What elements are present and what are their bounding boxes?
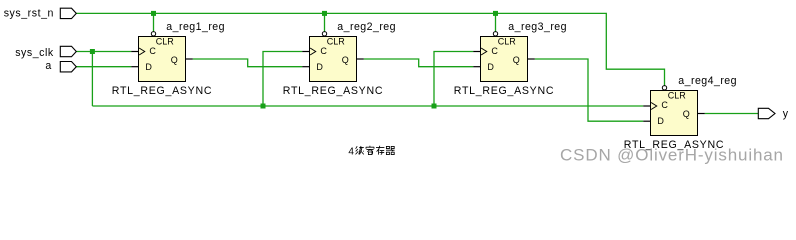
wire: sys_clk vertical drop to clock trunk — [91, 52, 93, 107]
wire: net y from reg4 Q to output port — [705, 113, 759, 115]
flip-flop a_reg2_reg (RTL_REG_ASYNC) — [283, 21, 396, 97]
svg-text:Q: Q — [683, 109, 690, 119]
svg-text:y: y — [783, 108, 789, 120]
a_reg3_reg pin D stub — [473, 66, 480, 68]
wire: net sys_rst_n trunk from port to reg4 CLR — [76, 13, 664, 85]
wire: net a_reg1 from reg1 Q to reg2 D — [193, 59, 302, 67]
wire: sys_rst_n drop to a_reg2_reg CLR — [324, 13, 326, 31]
sys_clk port symbol — [60, 46, 76, 56]
svg-text:Q: Q — [171, 55, 178, 65]
a_reg2_reg pin C stub — [302, 51, 309, 53]
a_reg4_reg body — [651, 91, 698, 136]
svg-text:CLR: CLR — [156, 37, 175, 47]
input port a — [45, 60, 76, 72]
flip-flop a_reg1_reg (RTL_REG_ASYNC) — [112, 21, 225, 97]
y port symbol — [758, 108, 775, 118]
svg-text:CSDN @OliverH-yishuihan: CSDN @OliverH-yishuihan — [560, 146, 784, 165]
svg-text:sys_clk: sys_clk — [15, 47, 54, 59]
svg-text:a_reg4_reg: a_reg4_reg — [678, 75, 737, 87]
a_reg2_reg clock edge triangle — [310, 48, 316, 55]
svg-text:4: 4 — [348, 146, 354, 157]
junction on sys_rst_n trunk at a_reg1_reg — [151, 11, 156, 16]
a_reg3_reg pin C stub — [473, 51, 480, 53]
input port sys_clk — [15, 46, 76, 59]
svg-text:C: C — [491, 46, 498, 56]
junction on sys_clk trunk at reg3 tap — [432, 104, 437, 109]
a_reg2_reg CLR inversion bubble — [322, 32, 326, 36]
a_reg2_reg body — [310, 37, 357, 82]
output port y — [758, 108, 789, 120]
a port symbol — [60, 62, 76, 72]
a_reg4_reg pin C stub — [643, 105, 650, 107]
wire: sys_clk trunk along bottom to reg4 C — [92, 105, 643, 107]
svg-text:Q: Q — [342, 55, 349, 65]
a_reg2_reg pin D stub — [302, 66, 309, 68]
svg-text:D: D — [145, 62, 152, 72]
flip-flop a_reg4_reg (RTL_REG_ASYNC) — [624, 75, 737, 151]
a_reg1_reg pin Q stub — [186, 58, 193, 60]
a_reg1_reg body — [139, 37, 186, 82]
junction on sys_clk trunk at reg2 tap — [261, 104, 266, 109]
svg-text:D: D — [316, 62, 323, 72]
svg-text:CLR: CLR — [327, 37, 346, 47]
a_reg4_reg CLR inversion bubble — [662, 86, 666, 90]
a_reg1_reg pin C stub — [131, 51, 138, 53]
wire: sys_clk tap up to reg3 C — [434, 52, 473, 107]
wire: net a_reg2 from reg2 Q to reg3 D — [364, 59, 473, 67]
junction on sys_rst_n trunk at a_reg2_reg — [322, 11, 327, 16]
svg-text:a: a — [45, 60, 51, 72]
a_reg1_reg clock edge triangle — [139, 48, 145, 55]
wire: net a_reg3 from reg3 Q to reg4 D — [535, 59, 643, 121]
a_reg3_reg CLR inversion bubble — [493, 32, 497, 36]
a_reg2_reg pin Q stub — [357, 58, 364, 60]
svg-text:D: D — [657, 116, 664, 126]
a_reg4_reg pin D stub — [643, 120, 650, 122]
input port sys_rst_n — [4, 7, 77, 19]
svg-text:C: C — [320, 46, 327, 56]
svg-text:C: C — [661, 100, 668, 110]
a_reg3_reg body — [481, 37, 528, 82]
svg-text:RTL_REG_ASYNC: RTL_REG_ASYNC — [283, 85, 383, 97]
wire: sys_clk tap up to reg2 C — [263, 52, 302, 107]
a_reg1_reg CLR inversion bubble — [151, 32, 155, 36]
sys_rst_n port symbol — [60, 8, 76, 18]
wire: sys_rst_n drop to a_reg1_reg CLR — [153, 13, 155, 31]
svg-text:RTL_REG_ASYNC: RTL_REG_ASYNC — [454, 85, 554, 97]
svg-text:a_reg3_reg: a_reg3_reg — [508, 21, 567, 33]
a_reg3_reg pin Q stub — [528, 58, 535, 60]
wire: net a from port to reg1 D — [76, 66, 131, 68]
svg-text:D: D — [487, 62, 494, 72]
svg-text:CLR: CLR — [668, 91, 687, 101]
junction on sys_rst_n trunk at a_reg3_reg — [493, 11, 498, 16]
wire: sys_rst_n drop to a_reg3_reg CLR — [495, 13, 497, 31]
svg-text:RTL_REG_ASYNC: RTL_REG_ASYNC — [112, 85, 212, 97]
svg-text:Q: Q — [513, 55, 520, 65]
svg-text:a_reg1_reg: a_reg1_reg — [166, 21, 225, 33]
a_reg3_reg clock edge triangle — [481, 48, 487, 55]
caption text: 4级寄存器 (4-stage register) — [348, 146, 394, 158]
a_reg4_reg pin Q stub — [698, 113, 705, 115]
a_reg4_reg clock edge triangle — [651, 103, 657, 110]
svg-text:CLR: CLR — [498, 37, 517, 47]
svg-text:C: C — [149, 46, 156, 56]
a_reg1_reg pin D stub — [131, 66, 138, 68]
junction on sys_clk wire at vertical drop — [90, 49, 95, 54]
svg-text:a_reg2_reg: a_reg2_reg — [337, 21, 396, 33]
wire: net sys_clk from port to reg1 C — [76, 51, 131, 53]
flip-flop a_reg3_reg (RTL_REG_ASYNC) — [454, 21, 567, 97]
svg-text:sys_rst_n: sys_rst_n — [4, 7, 54, 19]
